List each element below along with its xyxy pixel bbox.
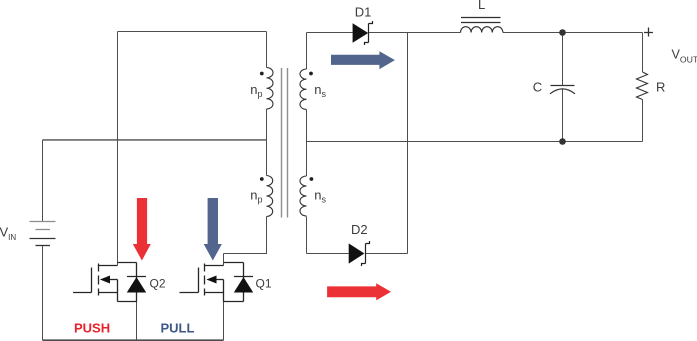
transistor Q1 <box>180 263 254 302</box>
wire bottom rail <box>43 339 224 341</box>
wire secondary bottom lead <box>306 217 308 254</box>
svg-text:D1: D1 <box>355 5 372 20</box>
wire Q1 drain riser <box>223 254 225 266</box>
wire battery bottom lead <box>42 246 44 341</box>
transistor Q2 <box>73 263 146 302</box>
svg-text:Q1: Q1 <box>256 276 272 290</box>
wire D2 cathode <box>366 253 408 255</box>
transformer primary winding np top <box>267 68 274 110</box>
junction node bottom <box>559 138 566 145</box>
dot secondary bottom <box>310 177 314 181</box>
arrow blue down (pull current) <box>204 198 222 261</box>
svg-text:C: C <box>533 80 542 95</box>
transformer secondary winding ns bottom <box>300 176 307 216</box>
wire resistor top lead <box>642 33 644 73</box>
wire primary mid link <box>266 109 268 176</box>
wire Q1 source feed <box>223 302 225 341</box>
svg-text:np: np <box>250 188 262 205</box>
plus sign output <box>644 28 653 37</box>
wire top rail primary <box>118 31 267 33</box>
svg-text:PUSH: PUSH <box>74 321 110 336</box>
transformer secondary winding ns top <box>300 69 307 109</box>
diode D1 <box>353 21 373 45</box>
wire C bottom lead <box>562 89 564 142</box>
wire Q2 drain column <box>117 32 119 266</box>
resistor R <box>637 72 648 100</box>
svg-text:R: R <box>656 79 665 94</box>
wire D2 anode <box>307 253 349 255</box>
svg-text:Q2: Q2 <box>150 276 166 290</box>
inductor L <box>461 18 503 33</box>
battery V_IN plates <box>30 222 56 246</box>
svg-text:D2: D2 <box>351 222 368 237</box>
wire secondary mid link <box>306 110 308 177</box>
transformer primary winding np bottom <box>267 176 273 217</box>
diode D2 <box>349 241 370 266</box>
wire secondary top lead <box>306 33 308 70</box>
svg-text:np: np <box>250 82 262 99</box>
svg-text:L: L <box>478 0 485 12</box>
wire D2 output column <box>407 33 409 254</box>
arrow red right (secondary current D2) <box>327 283 391 300</box>
wire C top lead <box>562 33 564 86</box>
arrow red down (push current) <box>133 198 151 261</box>
svg-text:ns: ns <box>314 188 326 205</box>
wire output bottom rail <box>307 141 643 143</box>
svg-text:PULL: PULL <box>161 321 195 336</box>
wire resistor bottom lead <box>642 100 644 142</box>
dot primary bottom <box>260 177 264 181</box>
wire D1 to L <box>369 32 461 34</box>
transformer core <box>282 68 288 218</box>
wire primary bottom lead to Q1 drain <box>224 217 267 254</box>
arrow blue right (secondary current D1) <box>331 51 395 69</box>
wire top rail secondary to D1 <box>307 32 353 34</box>
svg-text:ns: ns <box>314 82 326 99</box>
wire primary top lead <box>266 32 268 68</box>
svg-text:VIN: VIN <box>0 225 16 243</box>
wire center tap rail <box>43 139 267 141</box>
wire L to output corner <box>503 32 643 34</box>
wire Q2 source feed <box>136 302 138 341</box>
svg-text:VOUT: VOUT <box>672 48 697 65</box>
dot secondary top <box>309 72 313 76</box>
capacitor C <box>550 86 575 94</box>
dot primary top <box>260 72 264 76</box>
wire battery top lead <box>42 140 44 222</box>
junction node top <box>559 29 566 36</box>
